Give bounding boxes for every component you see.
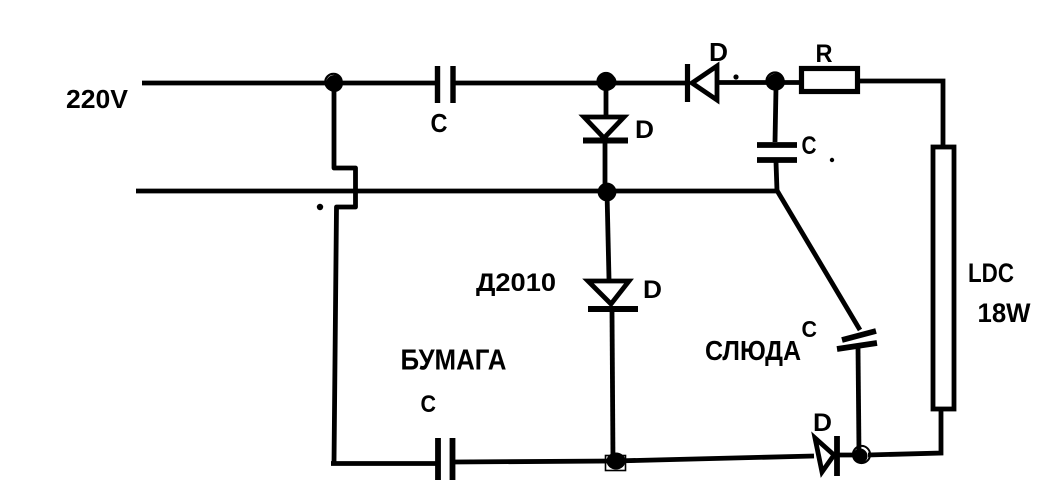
label C3 bbox=[802, 316, 818, 342]
diode D4 (horizontal, bottom, pointing right) bbox=[815, 436, 860, 476]
svg-text:СЛЮДА: СЛЮДА bbox=[705, 335, 801, 366]
wire neutral (second) line bbox=[136, 189, 779, 194]
svg-text:D: D bbox=[643, 276, 662, 304]
diode D2 (horizontal, top line, pointing left) bbox=[688, 64, 800, 102]
wire bottom line middle segment bbox=[454, 456, 814, 462]
wire bottom right to lamp bbox=[868, 411, 941, 455]
svg-text:C: C bbox=[431, 108, 448, 138]
label D2 bbox=[709, 37, 728, 67]
wire left branch vertical with crossover jog bbox=[334, 83, 356, 463]
wire bottom line left segment bbox=[331, 461, 436, 466]
label C2 bbox=[802, 132, 817, 160]
resistor R bbox=[802, 69, 858, 92]
label Д2010 bbox=[476, 269, 556, 297]
wire neutral junction down to diode D3 bbox=[607, 192, 609, 279]
svg-text:D: D bbox=[813, 409, 832, 437]
label D4 bbox=[813, 409, 832, 437]
svg-text:D: D bbox=[635, 116, 654, 144]
label 220V bbox=[66, 84, 129, 114]
capacitor C1 (series in top line) bbox=[438, 66, 454, 103]
svg-text:C: C bbox=[802, 132, 817, 160]
label 18W bbox=[978, 298, 1031, 328]
wire junction down to capacitor C2 bbox=[775, 88, 776, 142]
svg-text:БУМАГА: БУМАГА bbox=[401, 345, 507, 377]
wire mica capacitor down to bottom-right junction bbox=[858, 347, 859, 453]
node junction top-middle bbox=[598, 73, 617, 91]
label D3 bbox=[643, 276, 662, 304]
capacitor C2 (vertical, right of D1) bbox=[757, 145, 797, 160]
diode D3 (vertical, lower middle) bbox=[588, 281, 638, 461]
wire capacitor C2 to neutral line corner bbox=[776, 162, 777, 191]
svg-text:R: R bbox=[816, 40, 833, 68]
svg-text:LDC: LDC bbox=[968, 258, 1014, 288]
svg-text:D: D bbox=[709, 37, 728, 67]
label D1 bbox=[635, 116, 654, 144]
stray dot right of D2 bbox=[733, 74, 738, 79]
svg-text:18W: 18W bbox=[978, 298, 1031, 328]
svg-text:C: C bbox=[802, 316, 818, 342]
svg-text:Д2010: Д2010 bbox=[476, 269, 556, 297]
wire top line middle segment bbox=[454, 81, 686, 86]
svg-text:220V: 220V bbox=[66, 84, 129, 114]
node junction bottom-middle bbox=[606, 453, 626, 471]
wire top line left segment bbox=[142, 81, 435, 86]
diode D1 (vertical, top middle) bbox=[583, 90, 628, 190]
label LDC bbox=[968, 258, 1014, 288]
stray dot right of C2 bbox=[830, 158, 834, 162]
node junction top-right bbox=[767, 73, 786, 91]
lamp LDC tube bbox=[933, 147, 954, 409]
label C4 bbox=[421, 391, 437, 418]
stray dot near jog bbox=[317, 204, 323, 210]
capacitor C3 slanted (mica) bbox=[837, 331, 877, 349]
label БУМАГА bbox=[401, 345, 507, 377]
node junction bottom-right bbox=[853, 446, 871, 464]
label C1 value bbox=[431, 108, 448, 138]
node A (top-left junction) bbox=[325, 74, 343, 92]
label R bbox=[816, 40, 833, 68]
node junction middle (neutral line x diode chain) bbox=[598, 184, 616, 201]
capacitor C4 (series in bottom line) bbox=[438, 438, 453, 480]
label СЛЮДА bbox=[705, 335, 801, 366]
wire resistor to right corner and down to lamp bbox=[860, 81, 943, 145]
svg-text:C: C bbox=[421, 391, 437, 418]
wire diagonal from neutral corner to mica capacitor bbox=[777, 191, 860, 331]
